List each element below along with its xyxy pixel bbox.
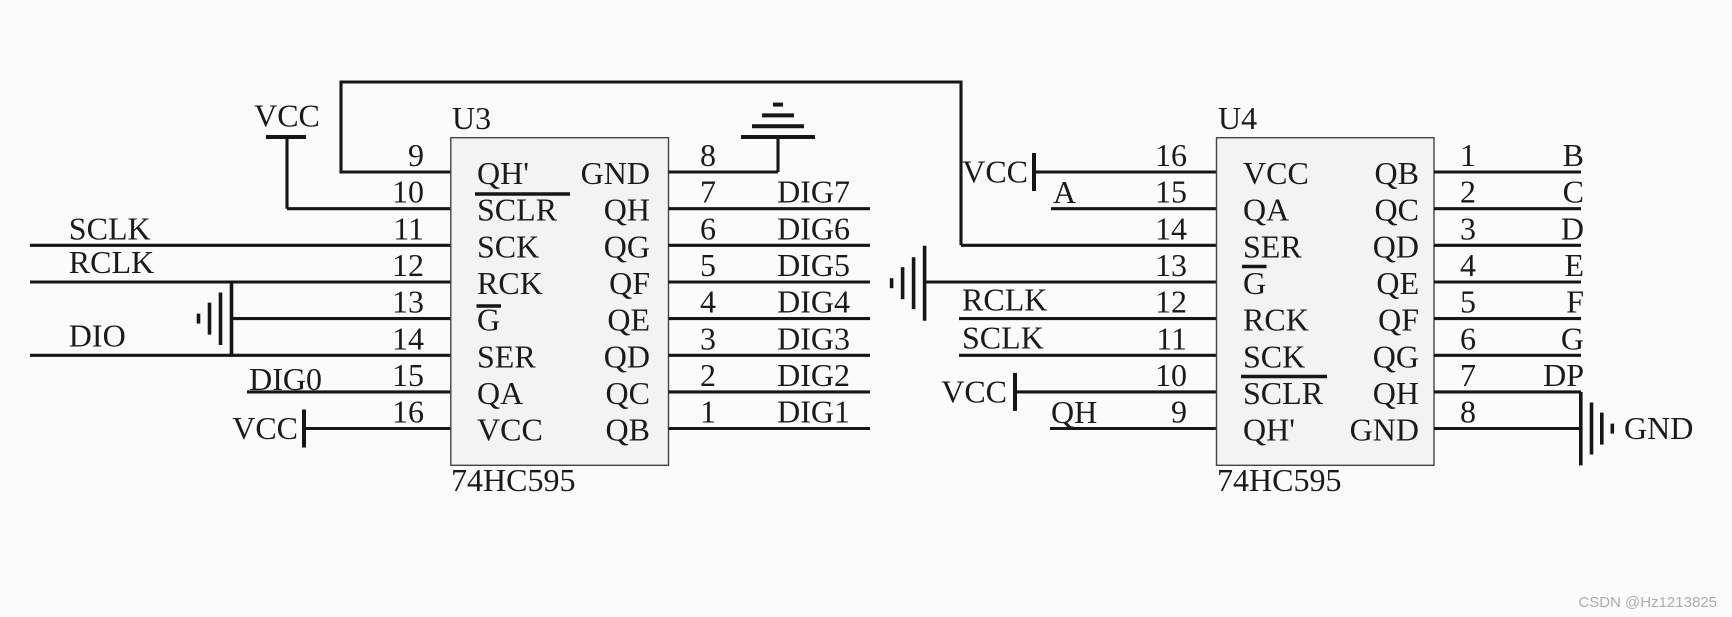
svg-text:QB: QB — [606, 412, 650, 448]
svg-text:U4: U4 — [1218, 100, 1257, 136]
node label DIG0 — [249, 361, 322, 397]
svg-text:14: 14 — [1155, 210, 1187, 246]
svg-text:7: 7 — [1460, 357, 1476, 393]
U4 pin 14 number — [1155, 210, 1187, 246]
svg-text:DIG7: DIG7 — [777, 174, 850, 210]
svg-text:SCK: SCK — [477, 228, 539, 264]
node label DIO (left) — [69, 317, 126, 353]
node label DIG7 — [777, 174, 850, 210]
svg-text:QE: QE — [1376, 265, 1419, 301]
U4 pin name SCLR — [1243, 375, 1324, 411]
svg-text:10: 10 — [392, 174, 424, 210]
wire U4 pin 4 to E — [1434, 280, 1581, 283]
node label RCLK (left) — [69, 244, 154, 280]
U3 pin 2 number — [700, 357, 716, 393]
svg-text:74HC595: 74HC595 — [451, 462, 575, 498]
U4 pin name RCK — [1243, 302, 1309, 338]
svg-text:DIG5: DIG5 — [777, 247, 850, 283]
svg-text:VCC: VCC — [941, 373, 1007, 409]
svg-text:D: D — [1561, 210, 1584, 246]
U3 pin name QB — [606, 412, 650, 448]
wire VCC to U4 pin 16 — [1034, 170, 1217, 173]
svg-text:4: 4 — [700, 284, 716, 320]
U3 pin name GND — [581, 155, 650, 191]
U4 pin name QC — [1375, 192, 1419, 228]
power VCC symbol at U4 pin 16 — [962, 153, 1034, 191]
power VCC symbol at U4 pin 10 — [941, 373, 1015, 411]
ground symbol (earth) above U3 pin 8 — [741, 105, 815, 172]
overbar of U3 SCLR — [475, 192, 570, 196]
U4 pin name QA — [1243, 192, 1289, 228]
svg-text:CSDN @Hz1213825: CSDN @Hz1213825 — [1578, 594, 1717, 611]
U4 pin 1 number — [1460, 137, 1476, 173]
node label DIG3 — [777, 320, 850, 356]
U4 pin 11 number — [1156, 320, 1187, 356]
wire U3 pin 7 to DIG7 — [669, 207, 871, 210]
svg-text:QF: QF — [609, 265, 650, 301]
U3 pin name SER — [477, 338, 536, 374]
svg-text:8: 8 — [700, 137, 716, 173]
node label DIG1 — [777, 394, 850, 430]
overbar of U4 SCLR — [1241, 375, 1327, 379]
svg-text:8: 8 — [1460, 394, 1476, 430]
svg-text:QE: QE — [607, 302, 650, 338]
wire U3 pin 5 to DIG5 — [669, 280, 871, 283]
svg-text:QA: QA — [477, 375, 523, 411]
wire net QH to U4 pin 9 — [1050, 427, 1217, 430]
wire VCC to U3 pin 10 (SCLR) — [287, 207, 451, 210]
U3 pin 13 number — [392, 284, 424, 320]
node label DIG5 — [777, 247, 850, 283]
svg-text:11: 11 — [393, 210, 424, 246]
svg-text:GND: GND — [1350, 412, 1419, 448]
U3 pin name QH — [604, 192, 650, 228]
U3 pin 4 number — [700, 284, 716, 320]
svg-text:SCK: SCK — [1243, 338, 1305, 374]
svg-text:QH: QH — [604, 192, 650, 228]
svg-text:GND: GND — [1624, 410, 1693, 446]
U4 pin 5 number — [1460, 284, 1476, 320]
svg-text:1: 1 — [700, 394, 716, 430]
svg-text:B: B — [1563, 137, 1584, 173]
svg-text:12: 12 — [392, 247, 424, 283]
wire U3 pin 4 to DIG4 — [669, 317, 871, 320]
wire U3 pin 8 (GND) to ground — [669, 170, 779, 173]
svg-text:QB: QB — [1375, 155, 1419, 191]
svg-text:6: 6 — [700, 210, 716, 246]
U4 pin name QG — [1373, 338, 1419, 374]
node label B — [1563, 137, 1584, 173]
svg-text:DIO: DIO — [69, 317, 126, 353]
node label QH — [1051, 394, 1097, 430]
U4 pin 2 number — [1460, 174, 1476, 210]
U4 pin 4 number — [1460, 247, 1476, 283]
svg-text:GND: GND — [581, 155, 650, 191]
wire net DIO to U3 pin 14 (SER) — [30, 354, 451, 357]
wire net RCLK to U4 pin 12 (RCK) — [959, 317, 1217, 320]
wire net QH2 from U3 pin 9 up and over to U4 pin 14 (SER) — [340, 82, 1217, 245]
svg-text:A: A — [1053, 174, 1076, 210]
svg-text:6: 6 — [1460, 320, 1476, 356]
svg-text:C: C — [1563, 174, 1584, 210]
U4 pin 9 number — [1171, 394, 1187, 430]
U3 pin 10 number — [392, 174, 424, 210]
power VCC symbol at U3 pin 16 — [232, 410, 304, 448]
U3 pin name VCC — [477, 412, 543, 448]
svg-text:5: 5 — [700, 247, 716, 283]
U3 pin name QD — [604, 338, 650, 374]
node label DIG2 — [777, 357, 850, 393]
wire ground to U4 pin 13 (G) — [925, 280, 1217, 283]
wire net SCLK to U3 pin 11 (SCK) — [30, 244, 451, 247]
wire U4 pin 5 to F — [1434, 317, 1581, 320]
svg-text:QH: QH — [1373, 375, 1419, 411]
U4 reference designator — [1218, 100, 1257, 136]
U4 pin name VCC — [1243, 155, 1309, 191]
U4 pin 7 number — [1460, 357, 1476, 393]
svg-text:3: 3 — [700, 320, 716, 356]
svg-text:VCC: VCC — [232, 410, 298, 446]
U3 pin 8 number — [700, 137, 716, 173]
svg-text:DIG4: DIG4 — [777, 284, 850, 320]
node label RCLK (right) — [962, 282, 1047, 318]
U4 pin 13 number — [1155, 247, 1187, 283]
watermark CSDN — [1578, 594, 1717, 611]
U3 pin name G — [477, 302, 500, 338]
svg-text:14: 14 — [392, 320, 424, 356]
node label A — [1053, 174, 1076, 210]
ground symbol at U4 pin 8 — [1581, 392, 1613, 466]
svg-text:11: 11 — [1156, 320, 1187, 356]
wire U4 pin 8 (GND) to ground — [1434, 427, 1581, 430]
wire net A to U4 pin 15 (QA) — [1051, 207, 1217, 210]
wire U3 pin 3 to DIG3 — [669, 354, 871, 357]
op IC U4 74HC595 body — [1217, 138, 1435, 466]
U4 value label 74HC595 — [1217, 462, 1341, 498]
svg-text:DIG6: DIG6 — [777, 210, 850, 246]
svg-text:RCK: RCK — [1243, 302, 1309, 338]
svg-text:E: E — [1564, 247, 1584, 283]
svg-text:VCC: VCC — [254, 98, 320, 134]
svg-text:SER: SER — [477, 338, 536, 374]
node label DIG4 — [777, 284, 850, 320]
node label SCLK (left) — [69, 210, 151, 246]
svg-text:3: 3 — [1460, 210, 1476, 246]
ground symbol at U3 pin 13 — [199, 282, 232, 355]
svg-text:QA: QA — [1243, 192, 1289, 228]
U3 value label 74HC595 — [451, 462, 575, 498]
U4 pin name QE — [1376, 265, 1419, 301]
svg-text:DIG2: DIG2 — [777, 357, 850, 393]
svg-text:7: 7 — [700, 174, 716, 210]
node label D — [1561, 210, 1584, 246]
svg-text:SCLK: SCLK — [69, 210, 151, 246]
svg-text:SCLK: SCLK — [962, 319, 1044, 355]
overbar of U3 G — [477, 304, 502, 308]
node label F — [1566, 284, 1584, 320]
node label DIG6 — [777, 210, 850, 246]
svg-text:13: 13 — [392, 284, 424, 320]
U4 pin name QH — [1373, 375, 1419, 411]
svg-text:VCC: VCC — [477, 412, 543, 448]
U4 pin name SER — [1243, 228, 1302, 264]
wire U3 pin 1 to DIG1 — [669, 427, 871, 430]
svg-text:9: 9 — [408, 137, 424, 173]
node label DP — [1543, 357, 1584, 393]
U3 pin 5 number — [700, 247, 716, 283]
svg-text:2: 2 — [1460, 174, 1476, 210]
U3 pin name QC — [606, 375, 650, 411]
svg-text:74HC595: 74HC595 — [1217, 462, 1341, 498]
U3 pin name QA — [477, 375, 523, 411]
U3 pin name SCK — [477, 228, 539, 264]
svg-text:SER: SER — [1243, 228, 1302, 264]
U3 pin name QG — [604, 228, 650, 264]
svg-text:10: 10 — [1155, 357, 1187, 393]
node label E — [1564, 247, 1584, 283]
wire U3 pin 2 to DIG2 — [669, 390, 871, 393]
U3 pin name SCLR — [477, 192, 558, 228]
U3 pin 3 number — [700, 320, 716, 356]
wire net DIG0 to U3 pin 15 (QA) — [247, 390, 451, 393]
node label C — [1563, 174, 1584, 210]
wire U3 pin 6 to DIG6 — [669, 244, 871, 247]
svg-text:SCLR: SCLR — [1243, 375, 1324, 411]
wire U4 pin 7 to DP — [1434, 390, 1581, 393]
U3 pin 15 number — [392, 357, 424, 393]
svg-text:2: 2 — [700, 357, 716, 393]
U3 pin name QE — [607, 302, 650, 338]
U4 pin name QH' — [1243, 412, 1295, 448]
U4 pin 3 number — [1460, 210, 1476, 246]
svg-text:9: 9 — [1171, 394, 1187, 430]
svg-text:QH: QH — [1051, 394, 1097, 430]
svg-text:QH': QH' — [477, 155, 529, 191]
svg-text:15: 15 — [1155, 174, 1187, 210]
svg-text:RCK: RCK — [477, 265, 543, 301]
U3 reference designator — [452, 100, 491, 136]
svg-text:QC: QC — [1375, 192, 1419, 228]
svg-text:RCLK: RCLK — [962, 282, 1047, 318]
svg-text:DIG3: DIG3 — [777, 320, 850, 356]
U3 pin name QF — [609, 265, 650, 301]
svg-text:QF: QF — [1378, 302, 1419, 338]
wire VCC to U4 pin 10 (SCLR) — [1015, 390, 1217, 393]
svg-text:12: 12 — [1155, 284, 1187, 320]
svg-text:5: 5 — [1460, 284, 1476, 320]
svg-text:RCLK: RCLK — [69, 244, 154, 280]
U4 pin name SCK — [1243, 338, 1305, 374]
wire U4 pin 2 to C — [1434, 207, 1581, 210]
U4 pin name GND — [1350, 412, 1419, 448]
svg-text:G: G — [1561, 320, 1584, 356]
wire ground to U3 pin 13 (G) — [232, 317, 451, 320]
svg-text:DP: DP — [1543, 357, 1584, 393]
U3 pin 14 number — [392, 320, 424, 356]
wire U4 pin 1 to B — [1434, 170, 1581, 173]
U3 pin 16 number — [392, 394, 424, 430]
U4 pin 12 number — [1155, 284, 1187, 320]
U3 pin name QH' — [477, 155, 529, 191]
node label G — [1561, 320, 1584, 356]
wire U4 pin 6 to G — [1434, 354, 1581, 357]
node label SCLK (right) — [962, 319, 1044, 355]
svg-text:G: G — [1243, 265, 1266, 301]
svg-text:U3: U3 — [452, 100, 491, 136]
U4 pin 10 number — [1155, 357, 1187, 393]
svg-text:13: 13 — [1155, 247, 1187, 283]
op IC U3 74HC595 body — [451, 138, 669, 466]
wire net RCLK to U3 pin 12 (RCK) — [30, 280, 451, 283]
svg-text:QH': QH' — [1243, 412, 1295, 448]
U3 pin 12 number — [392, 247, 424, 283]
U3 pin 7 number — [700, 174, 716, 210]
svg-text:SCLR: SCLR — [477, 192, 558, 228]
wire U4 pin 3 to D — [1434, 244, 1581, 247]
svg-text:VCC: VCC — [1243, 155, 1309, 191]
U4 pin name QB — [1375, 155, 1419, 191]
svg-text:DIG1: DIG1 — [777, 394, 850, 430]
U3 pin 1 number — [700, 394, 716, 430]
U4 pin 6 number — [1460, 320, 1476, 356]
power VCC symbol at U3 pin 10 — [254, 98, 320, 209]
svg-text:16: 16 — [1155, 137, 1187, 173]
svg-text:VCC: VCC — [962, 154, 1028, 190]
svg-text:16: 16 — [392, 394, 424, 430]
wire net SCLK to U4 pin 11 (SCK) — [959, 354, 1217, 357]
svg-text:QC: QC — [606, 375, 650, 411]
overbar of U4 G — [1242, 265, 1267, 269]
svg-text:QD: QD — [1373, 228, 1419, 264]
node label GND — [1624, 410, 1693, 446]
U3 pin 6 number — [700, 210, 716, 246]
U3 pin 9 number — [408, 137, 424, 173]
svg-text:F: F — [1566, 284, 1584, 320]
svg-text:QD: QD — [604, 338, 650, 374]
U4 pin 15 number — [1155, 174, 1187, 210]
wire VCC to U3 pin 16 — [304, 427, 451, 430]
svg-text:4: 4 — [1460, 247, 1476, 283]
U4 pin 16 number — [1155, 137, 1187, 173]
U4 pin name QD — [1373, 228, 1419, 264]
svg-text:15: 15 — [392, 357, 424, 393]
U3 pin 11 number — [393, 210, 424, 246]
svg-text:QG: QG — [604, 228, 650, 264]
svg-text:1: 1 — [1460, 137, 1476, 173]
ground symbol at U4 pin 13 — [892, 246, 925, 321]
U3 pin name RCK — [477, 265, 543, 301]
U4 pin name QF — [1378, 302, 1419, 338]
U4 pin name G — [1243, 265, 1266, 301]
U4 pin 8 number — [1460, 394, 1476, 430]
svg-text:QG: QG — [1373, 338, 1419, 374]
